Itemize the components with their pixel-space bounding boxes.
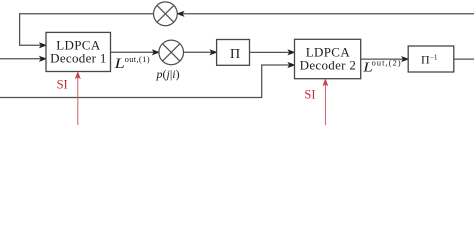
- interleaver box P: [217, 40, 250, 66]
- wire feedback top: from right edge to top multiplier: [181, 13, 474, 15]
- wire deinterleaver output to right edge: [454, 58, 474, 60]
- svg-text:out,(2): out,(2): [372, 58, 402, 68]
- svg-text:Π: Π: [230, 47, 240, 62]
- wire feedback left: top multiplier down into Decoder 1: [20, 14, 154, 46]
- wire Decoder 2 output to deinterleaver: [361, 58, 405, 60]
- wire interleaver to Decoder 2 upper input: [250, 51, 291, 53]
- svg-text:p(j|i): p(j|i): [156, 67, 180, 81]
- arrowhead into Decoder 1 lower input: [40, 57, 46, 62]
- multiplier X2 (middle circle with cross): [159, 40, 184, 65]
- wire channel info: bottom line from left edge up into Decoder 2 lower input: [0, 65, 291, 98]
- svg-text:SI: SI: [304, 88, 315, 102]
- svg-text:Decoder 2: Decoder 2: [300, 58, 356, 73]
- wire multiplier X2 to interleaver: [184, 51, 214, 53]
- wire Decoder 1 output to multiplier X2: [111, 51, 156, 53]
- arrowhead into deinterleaver: [402, 57, 408, 62]
- svg-text:SI: SI: [57, 77, 68, 91]
- svg-text:Decoder 1: Decoder 1: [50, 50, 106, 65]
- arrowhead into multiplier X2: [153, 50, 159, 55]
- arrowhead into Decoder 2 lower input: [288, 63, 294, 68]
- svg-text:L: L: [114, 54, 125, 71]
- multiplier X1 (top circle with cross): [154, 2, 178, 26]
- svg-text:Π: Π: [421, 52, 430, 66]
- arrowhead into top multiplier (pointing left): [177, 12, 183, 17]
- arrowhead into Decoder 1 upper input: [40, 43, 46, 48]
- SI input 1 red arrow into Decoder 1 bottom: [77, 76, 79, 125]
- wire input 2 of Decoder 1 (from left edge): [0, 58, 43, 60]
- LDPCA Decoder 1 box: [46, 32, 111, 71]
- svg-text:−1: −1: [430, 53, 438, 61]
- LDPCA Decoder 2 box: [295, 39, 361, 78]
- arrowhead into Decoder 2 upper input: [288, 50, 294, 55]
- arrowhead into interleaver: [210, 50, 216, 55]
- svg-text:out,(1): out,(1): [125, 54, 150, 64]
- SI input 2 red arrow into Decoder 2 bottom: [324, 83, 326, 125]
- deinterleaver box P^-1: [408, 46, 454, 72]
